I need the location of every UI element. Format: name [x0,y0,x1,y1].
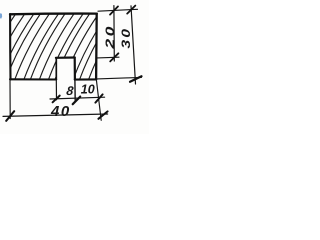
tick at left of 8 dimension [53,96,60,103]
tick at bottom of 20 line [110,53,118,61]
extension line at body bottom level [97,77,142,79]
dimension line 20 (vertical) [113,6,115,61]
dimension line 40 (horizontal) [3,114,108,116]
extension line down from right edge [96,80,101,120]
tick at top of 30 line [127,6,135,14]
dimension line 8 and 10 (horizontal) [50,97,105,99]
extension line down from left edge [9,80,11,119]
extension of notch right side down [74,80,76,101]
blue scan mark on left edge [0,13,2,18]
body outline: left edge [9,14,11,79]
notch right side [74,58,76,80]
notch left side [55,58,57,80]
body outline: bottom edge left of notch [10,78,56,80]
notch top side [56,56,75,58]
body outline: bottom edge right of notch [75,78,97,80]
tick at top of 20 line [110,6,118,14]
extension of notch left side down [55,80,57,100]
tick at left of 40 dimension [6,111,14,121]
tick at right of 40 dimension [98,111,107,118]
tick at bottom of 30 line [130,76,142,82]
tick between 8 and 10 [73,97,81,105]
svg-text:30: 30 [119,27,133,49]
dimension line 30 (vertical) [131,6,136,84]
hatching of section (clipped to body minus notch) [0,12,124,80]
svg-text:20: 20 [103,24,116,50]
body outline: top edge [10,12,97,15]
tick at right of 10 dimension [95,94,102,102]
extension line top right [98,9,138,11]
svg-text:40: 40 [50,103,71,120]
extension line at notch-top level [97,56,119,59]
svg-text:8: 8 [66,84,74,98]
body outline: right edge [95,14,98,80]
svg-text:10: 10 [81,83,95,97]
